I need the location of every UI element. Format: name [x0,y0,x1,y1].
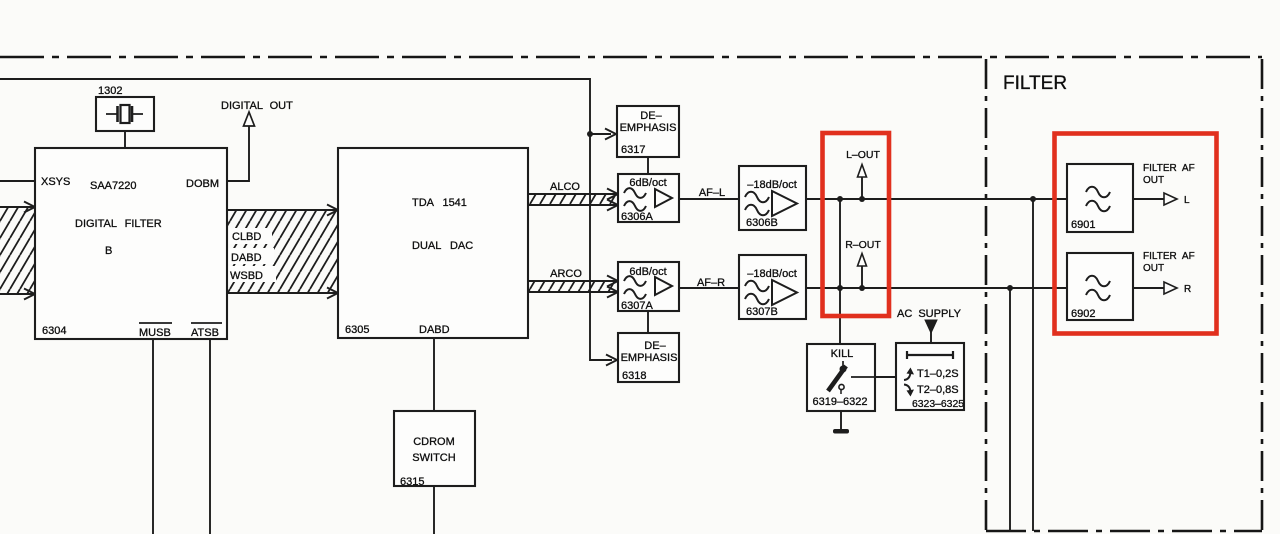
svg-text:FILTER AF: FILTER AF [1143,163,1195,174]
svg-text:T1–0,2S: T1–0,2S [917,368,959,380]
svg-text:DE–: DE– [644,340,666,352]
svg-text:DIGITAL OUT: DIGITAL OUT [221,100,293,112]
svg-text:B: B [105,245,112,257]
svg-text:KILL: KILL [831,348,854,360]
svg-text:DIGITAL FILTER: DIGITAL FILTER [75,218,162,230]
svg-text:L–OUT: L–OUT [846,149,880,161]
svg-text:6315: 6315 [400,476,424,488]
svg-text:6306B: 6306B [746,217,778,229]
svg-text:OUT: OUT [1143,263,1164,274]
svg-text:1302: 1302 [98,85,122,97]
svg-text:EMPHASIS: EMPHASIS [621,352,678,364]
svg-text:ARCO: ARCO [550,268,582,280]
svg-text:6304: 6304 [42,325,66,337]
svg-text:R: R [1184,284,1191,295]
svg-text:6319–6322: 6319–6322 [812,396,867,408]
svg-text:ATSB: ATSB [191,327,219,339]
svg-text:6901: 6901 [1071,219,1095,231]
svg-text:6306A: 6306A [621,211,653,223]
svg-text:T2–0,8S: T2–0,8S [917,384,959,396]
svg-text:DE–: DE– [640,110,662,122]
svg-text:AF–R: AF–R [697,277,725,289]
svg-text:6902: 6902 [1071,308,1095,320]
svg-text:DABD: DABD [231,252,262,264]
svg-text:6318: 6318 [622,370,646,382]
svg-text:–18dB/oct: –18dB/oct [747,268,797,280]
svg-text:6307A: 6307A [621,300,653,312]
svg-text:CDROM: CDROM [413,436,455,448]
svg-text:DABD: DABD [419,324,450,336]
svg-text:MUSB: MUSB [139,327,171,339]
svg-text:FILTER AF: FILTER AF [1143,251,1195,262]
svg-text:6317: 6317 [621,144,645,156]
svg-text:WSBD: WSBD [230,270,263,282]
svg-text:TDA 1541: TDA 1541 [412,197,467,209]
svg-text:6307B: 6307B [746,306,778,318]
svg-text:6323–6325: 6323–6325 [912,399,964,410]
svg-text:SWITCH: SWITCH [412,452,455,464]
svg-text:DUAL DAC: DUAL DAC [412,240,473,252]
svg-text:6dB/oct: 6dB/oct [629,177,666,189]
svg-text:DOBM: DOBM [186,178,219,190]
svg-text:AC SUPPLY: AC SUPPLY [897,308,962,320]
svg-text:SAA7220: SAA7220 [90,180,136,192]
svg-text:OUT: OUT [1143,175,1164,186]
svg-text:6dB/oct: 6dB/oct [629,266,666,278]
svg-text:EMPHASIS: EMPHASIS [620,122,677,134]
svg-text:XSYS: XSYS [41,176,70,188]
svg-text:FILTER: FILTER [1003,73,1067,94]
svg-text:CLBD: CLBD [232,231,261,243]
svg-text:6305: 6305 [345,324,369,336]
svg-text:R–OUT: R–OUT [845,239,881,251]
svg-text:L: L [1184,195,1190,206]
svg-text:ALCO: ALCO [550,181,580,193]
svg-text:–18dB/oct: –18dB/oct [747,179,797,191]
svg-text:AF–L: AF–L [699,187,725,199]
